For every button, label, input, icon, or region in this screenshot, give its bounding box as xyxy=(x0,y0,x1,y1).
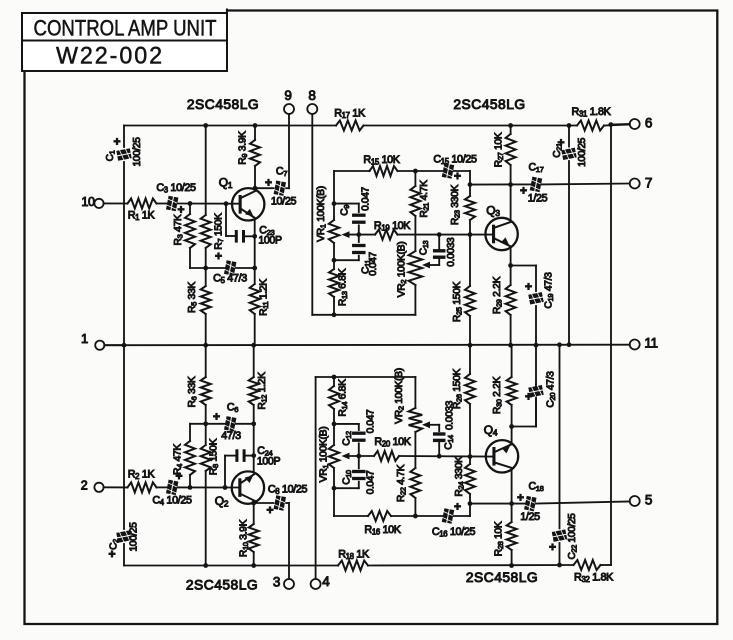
svg-text:+: + xyxy=(525,280,532,294)
svg-text:+: + xyxy=(265,176,272,190)
svg-text:R5​ 33K: R5​ 33K xyxy=(187,282,199,313)
svg-text:4: 4 xyxy=(322,574,330,589)
svg-text:R24​ 330K: R24​ 330K xyxy=(454,456,466,497)
svg-text:R13​ 6.8K: R13​ 6.8K xyxy=(337,268,349,306)
svg-text:100P: 100P xyxy=(257,455,281,467)
svg-text:R11​ 1.2K: R11​ 1.2K xyxy=(258,279,270,316)
svg-text:R25​ 150K: R25​ 150K xyxy=(452,281,464,322)
svg-text:R29​ 2.2K: R29​ 2.2K xyxy=(492,276,504,314)
svg-text:+: + xyxy=(454,500,461,514)
svg-text:R17​ 1K: R17​ 1K xyxy=(334,107,366,120)
svg-text:R15​ 10K: R15​ 10K xyxy=(363,154,400,167)
svg-text:2SC458LG: 2SC458LG xyxy=(453,96,525,111)
svg-text:R7​ 150K: R7​ 150K xyxy=(213,213,225,250)
svg-text:0.047: 0.047 xyxy=(360,186,371,210)
svg-text:1/25: 1/25 xyxy=(528,192,548,204)
svg-text:R12​ 1.2K: R12​ 1.2K xyxy=(257,372,269,410)
svg-text:R26​ 150K: R26​ 150K xyxy=(452,368,464,409)
svg-text:47/3: 47/3 xyxy=(221,430,241,442)
svg-text:100/25: 100/25 xyxy=(576,137,587,167)
svg-text:R23​ 330K: R23​ 330K xyxy=(450,184,462,225)
svg-text:0.047: 0.047 xyxy=(368,251,379,275)
svg-text:C5​ 47/3: C5​ 47/3 xyxy=(213,272,247,285)
svg-text:C22​ 100/25: C22​ 100/25 xyxy=(566,513,578,560)
svg-text:+: + xyxy=(215,249,222,263)
svg-text:C8​ 10/25: C8​ 10/25 xyxy=(268,483,308,496)
svg-text:+: + xyxy=(113,135,120,149)
svg-text:5: 5 xyxy=(645,492,652,507)
svg-text:R9​ 3.9K: R9​ 3.9K xyxy=(237,131,249,165)
svg-text:8: 8 xyxy=(308,88,315,103)
svg-text:R32​ 1.8K: R32​ 1.8K xyxy=(574,571,614,584)
svg-text:R16​ 10K: R16​ 10K xyxy=(364,524,401,537)
svg-text:R3​ 47K: R3​ 47K xyxy=(173,214,185,245)
svg-text:100/25: 100/25 xyxy=(128,522,139,552)
svg-text:C16​ 10/25: C16​ 10/25 xyxy=(432,526,476,539)
svg-text:R27​ 10K: R27​ 10K xyxy=(493,132,505,167)
svg-text:0.0033: 0.0033 xyxy=(446,237,457,267)
svg-text:R19​ 10K: R19​ 10K xyxy=(374,220,411,233)
svg-text:R30​ 2.2K: R30​ 2.2K xyxy=(492,376,504,414)
svg-text:+: + xyxy=(525,390,532,404)
svg-text:+: + xyxy=(454,169,461,183)
svg-text:9: 9 xyxy=(284,88,291,103)
svg-text:R18​ 1K: R18​ 1K xyxy=(338,548,370,561)
svg-text:C19​ 47/3: C19​ 47/3 xyxy=(543,272,555,309)
svg-text:11: 11 xyxy=(644,335,657,350)
svg-text:0.047: 0.047 xyxy=(365,409,376,433)
svg-text:1/25: 1/25 xyxy=(520,511,540,523)
svg-text:+: + xyxy=(557,136,564,150)
svg-text:2SC458LG: 2SC458LG xyxy=(187,96,259,111)
svg-text:10: 10 xyxy=(81,195,95,209)
svg-text:R20​ 10K: R20​ 10K xyxy=(374,436,411,449)
svg-text:R10​ 3.9K: R10​ 3.9K xyxy=(238,519,250,557)
svg-text:R31​ 1.8K: R31​ 1.8K xyxy=(572,106,612,119)
svg-text:VR1​ 100K(B): VR1​ 100K(B) xyxy=(318,427,330,483)
svg-text:C4​ 10/25: C4​ 10/25 xyxy=(152,494,192,507)
svg-text:10/25: 10/25 xyxy=(271,195,297,207)
svg-text:C3​ 10/25: C3​ 10/25 xyxy=(156,182,196,195)
svg-text:2: 2 xyxy=(81,479,88,493)
svg-text:+: + xyxy=(108,547,115,561)
svg-text:R28​ 10K: R28​ 10K xyxy=(493,521,505,556)
svg-text:C20​ 47/3: C20​ 47/3 xyxy=(545,371,557,408)
svg-text:R22​ 4.7K: R22​ 4.7K xyxy=(396,464,408,502)
svg-text:W22-002: W22-002 xyxy=(56,42,164,69)
svg-text:+: + xyxy=(266,503,273,517)
svg-text:+: + xyxy=(517,491,524,505)
svg-text:100/25: 100/25 xyxy=(131,137,142,167)
svg-text:2SC458LG: 2SC458LG xyxy=(466,570,538,585)
svg-text:6: 6 xyxy=(645,115,652,130)
svg-text:100P: 100P xyxy=(258,234,282,246)
svg-text:R4​ 47K: R4​ 47K xyxy=(172,444,184,475)
svg-text:R2​ 1K: R2​ 1K xyxy=(128,468,156,481)
svg-text:CONTROL AMP UNIT: CONTROL AMP UNIT xyxy=(34,15,217,40)
svg-text:2SC458LG: 2SC458LG xyxy=(186,577,258,592)
svg-text:R21​ 4.7K: R21​ 4.7K xyxy=(419,180,431,218)
svg-text:+: + xyxy=(520,184,527,198)
svg-text:R6​ 33K: R6​ 33K xyxy=(187,376,199,407)
svg-text:R1​ 1K: R1​ 1K xyxy=(128,209,156,222)
svg-text:VR1​ 100K(B): VR1​ 100K(B) xyxy=(316,186,328,242)
svg-text:R14​ 6.8K: R14​ 6.8K xyxy=(337,379,349,417)
svg-text:7: 7 xyxy=(645,175,652,190)
svg-text:VR2​ 100K(B): VR2​ 100K(B) xyxy=(396,242,408,298)
svg-text:C15​ 10/25: C15​ 10/25 xyxy=(433,153,477,166)
svg-text:0.047: 0.047 xyxy=(365,470,376,494)
svg-text:+: + xyxy=(549,540,556,554)
svg-text:1: 1 xyxy=(81,331,88,346)
svg-text:3: 3 xyxy=(273,574,280,589)
svg-text:R8​ 150K: R8​ 150K xyxy=(208,438,220,475)
svg-text:VR2​ 100K(B): VR2​ 100K(B) xyxy=(394,368,406,424)
svg-text:+: + xyxy=(213,410,220,424)
